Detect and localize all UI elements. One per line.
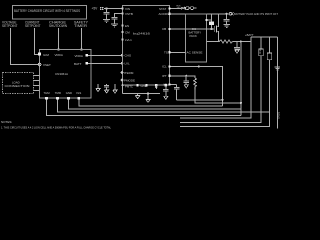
IC U1 main charger (123, 6, 170, 86)
wire V2 sense (180, 37, 251, 118)
wire V5 gnd (277, 37, 279, 129)
svg-text:CB: CB (162, 27, 166, 31)
pin ITERM (121, 71, 124, 74)
svg-text:PACK: PACK (190, 34, 198, 38)
svg-text:SHUTDOWN: SHUTDOWN (49, 24, 67, 28)
wire LS1 pin2 (34, 79, 40, 81)
pin VIN (121, 7, 123, 9)
svg-text:VSET: VSET (43, 63, 51, 67)
svg-text:ACDRV: ACDRV (159, 12, 169, 16)
wire Q1 drain (218, 14, 220, 27)
svg-text:CONNECTION: CONNECTION (5, 84, 30, 88)
pin VSET circle (38, 63, 41, 66)
ground arrow G4 (146, 99, 150, 102)
wire bus2 (58, 100, 270, 113)
wire BATT+ rail (251, 36, 278, 38)
svg-text:CN3061A: CN3061A (55, 72, 68, 76)
node V1 junction (240, 40, 242, 42)
capacitor C5 (104, 84, 109, 90)
svg-text:STAT: STAT (159, 7, 166, 11)
svg-text:GND1: GND1 (277, 111, 281, 119)
svg-text:ILIM: ILIM (43, 53, 49, 57)
pin dot U1 left upper (121, 54, 124, 57)
wire AB to C6 (171, 84, 177, 86)
pin PMODE (121, 79, 124, 82)
node charge control junction (57, 48, 59, 50)
svg-text:VRDA: VRDA (55, 53, 63, 57)
wire VSTB tap (115, 14, 123, 18)
ground arrow G3 (135, 96, 139, 99)
transistor Q1 mosfet (215, 26, 219, 33)
svg-text:TIMER: TIMER (74, 24, 88, 28)
ground arrow C4 (235, 50, 239, 53)
svg-text:PMTC: PMTC (125, 85, 133, 89)
battery box BT1 (186, 14, 207, 62)
capacitor C1 (106, 9, 108, 13)
svg-text:EN: EN (125, 24, 129, 28)
ground arrow G1 (96, 84, 100, 92)
capacitor C7 (184, 76, 190, 85)
svg-text:BATT: BATT (74, 62, 82, 66)
title box (13, 6, 87, 20)
wire R6 down to V1 (195, 90, 241, 103)
svg-text:bq24616: bq24616 (133, 32, 150, 36)
svg-text:R14: R14 (258, 48, 262, 53)
wire Q1 source (218, 31, 220, 41)
capacitor C4 (236, 42, 238, 48)
node gate junction (210, 28, 212, 30)
ground C1 (103, 19, 110, 21)
wire STAT (171, 8, 181, 10)
wire charge control drop (58, 28, 60, 50)
wire IPT out (171, 76, 195, 78)
resistor R2 body (209, 21, 214, 24)
ground C2 (111, 23, 118, 25)
svg-text:VIN: VIN (125, 7, 130, 11)
node R6 line junction (240, 102, 242, 104)
svg-text:SETPOINT: SETPOINT (2, 24, 18, 28)
svg-text:IPT: IPT (162, 74, 167, 78)
wire ACDRV rail (171, 13, 229, 15)
resistor R3 zigzag (219, 40, 233, 43)
node gnd junction (147, 92, 149, 94)
wire LS1 pin3 (34, 84, 40, 86)
ground arrow C5 (104, 90, 108, 93)
svg-text:NOTES:: NOTES: (1, 120, 12, 124)
wire battery sense (207, 41, 220, 43)
ground arrow C8 (164, 96, 168, 99)
capacitor C8 (165, 85, 167, 89)
wire voltage setpoint drop (11, 28, 40, 65)
ground bars V5 (274, 67, 280, 70)
pin PG (121, 31, 123, 33)
wire R3 to V1 (233, 41, 251, 43)
wire +5V to U1 VIN (105, 8, 123, 10)
node safety junction (80, 48, 82, 50)
wire bus4 (79, 100, 223, 106)
wire safety drop (81, 28, 83, 50)
svg-text:GND: GND (141, 84, 147, 88)
pin EN (121, 24, 123, 26)
resistor R2 pullup wire (211, 14, 213, 21)
node C6 line junction (221, 99, 223, 101)
pin ILIM pad (38, 53, 41, 56)
connector J2 (229, 13, 232, 16)
svg-text:+BATT: +BATT (245, 33, 254, 37)
pin VSTB (121, 12, 123, 14)
svg-text:CHG: CHG (125, 54, 132, 58)
wire bus3 (69, 100, 241, 109)
svg-text:SETPOINT: SETPOINT (25, 24, 41, 28)
wire D2 to rail (189, 7, 190, 9)
node U1 bottom corner (121, 84, 123, 86)
svg-text:BATTERY CHARGER CIRCUIT WITH 4: BATTERY CHARGER CIRCUIT WITH 4 SETTINGS (14, 9, 80, 13)
pin battery box right pad (205, 19, 207, 21)
capacitor C6 (171, 67, 223, 106)
svg-text:ITERM: ITERM (124, 71, 134, 75)
wire LS1 pin4 (34, 89, 40, 91)
svg-text:BATTERY PACK AND ITS PROT CKT: BATTERY PACK AND ITS PROT CKT (234, 12, 278, 16)
LED D2 (186, 7, 189, 10)
ground C3 (223, 24, 230, 26)
ground arrow G2 (113, 84, 117, 93)
svg-text:LVL1: LVL1 (125, 38, 132, 42)
pin dot U1 left lower (121, 62, 124, 65)
wire U2 right to U1 (upper) (88, 54, 122, 56)
resistor R6 zigzag (194, 78, 197, 90)
wire gnd bus below U1 (122, 85, 124, 93)
wire C6 bottom to corner (177, 99, 223, 101)
svg-text:1. THIS CIRCUIT USES A 4.2 LIO: 1. THIS CIRCUIT USES A 4.2 LION CELL AND… (1, 126, 111, 130)
svg-text:VDDA: VDDA (75, 54, 83, 58)
svg-text:VLS: VLS (76, 91, 81, 95)
wire CB to gate (171, 28, 214, 30)
wire LS1 pin1 (34, 74, 40, 76)
op-amp box U2 (40, 50, 92, 99)
wire TS to battery box (171, 51, 186, 53)
svg-text:TMR: TMR (55, 91, 61, 95)
node C3 tap (226, 13, 228, 15)
capacitor C3 (226, 14, 228, 19)
wire V3 sense (260, 37, 262, 49)
node IPT tap (185, 75, 187, 77)
node ICL tap (198, 65, 200, 67)
node sense tap (155, 85, 157, 89)
node C1 tap (105, 7, 107, 9)
U2 bottom pads (45, 97, 48, 100)
wire ICL out (171, 67, 223, 106)
ground arrow C7 (184, 85, 188, 88)
resistor R4 body (259, 49, 263, 56)
svg-text:AC SENSE: AC SENSE (187, 51, 203, 55)
pin pads U1 bottom (137, 84, 139, 86)
svg-text:TS: TS (164, 51, 168, 55)
capacitor C2 (112, 16, 118, 18)
svg-text:PMODE: PMODE (124, 79, 135, 83)
svg-text:THM: THM (44, 91, 51, 95)
wire current setpoint drop (35, 28, 40, 55)
svg-text:+5V: +5V (92, 7, 99, 11)
wire V4 sense (269, 37, 271, 53)
resistor R5 body (267, 53, 271, 60)
load box LS1 (3, 73, 34, 94)
diode D1 bowtie (181, 7, 183, 9)
svg-text:GND: GND (66, 91, 72, 95)
wire U2 right to U1 (lower) (88, 62, 122, 64)
wire bus1 (46, 100, 241, 116)
svg-text:LVL: LVL (125, 62, 130, 66)
svg-text:VSTB: VSTB (125, 12, 133, 16)
svg-text:ICL: ICL (162, 65, 167, 69)
wire V1 sense (240, 42, 242, 116)
pin SCL (121, 38, 123, 40)
svg-text:CM: CM (125, 30, 130, 34)
